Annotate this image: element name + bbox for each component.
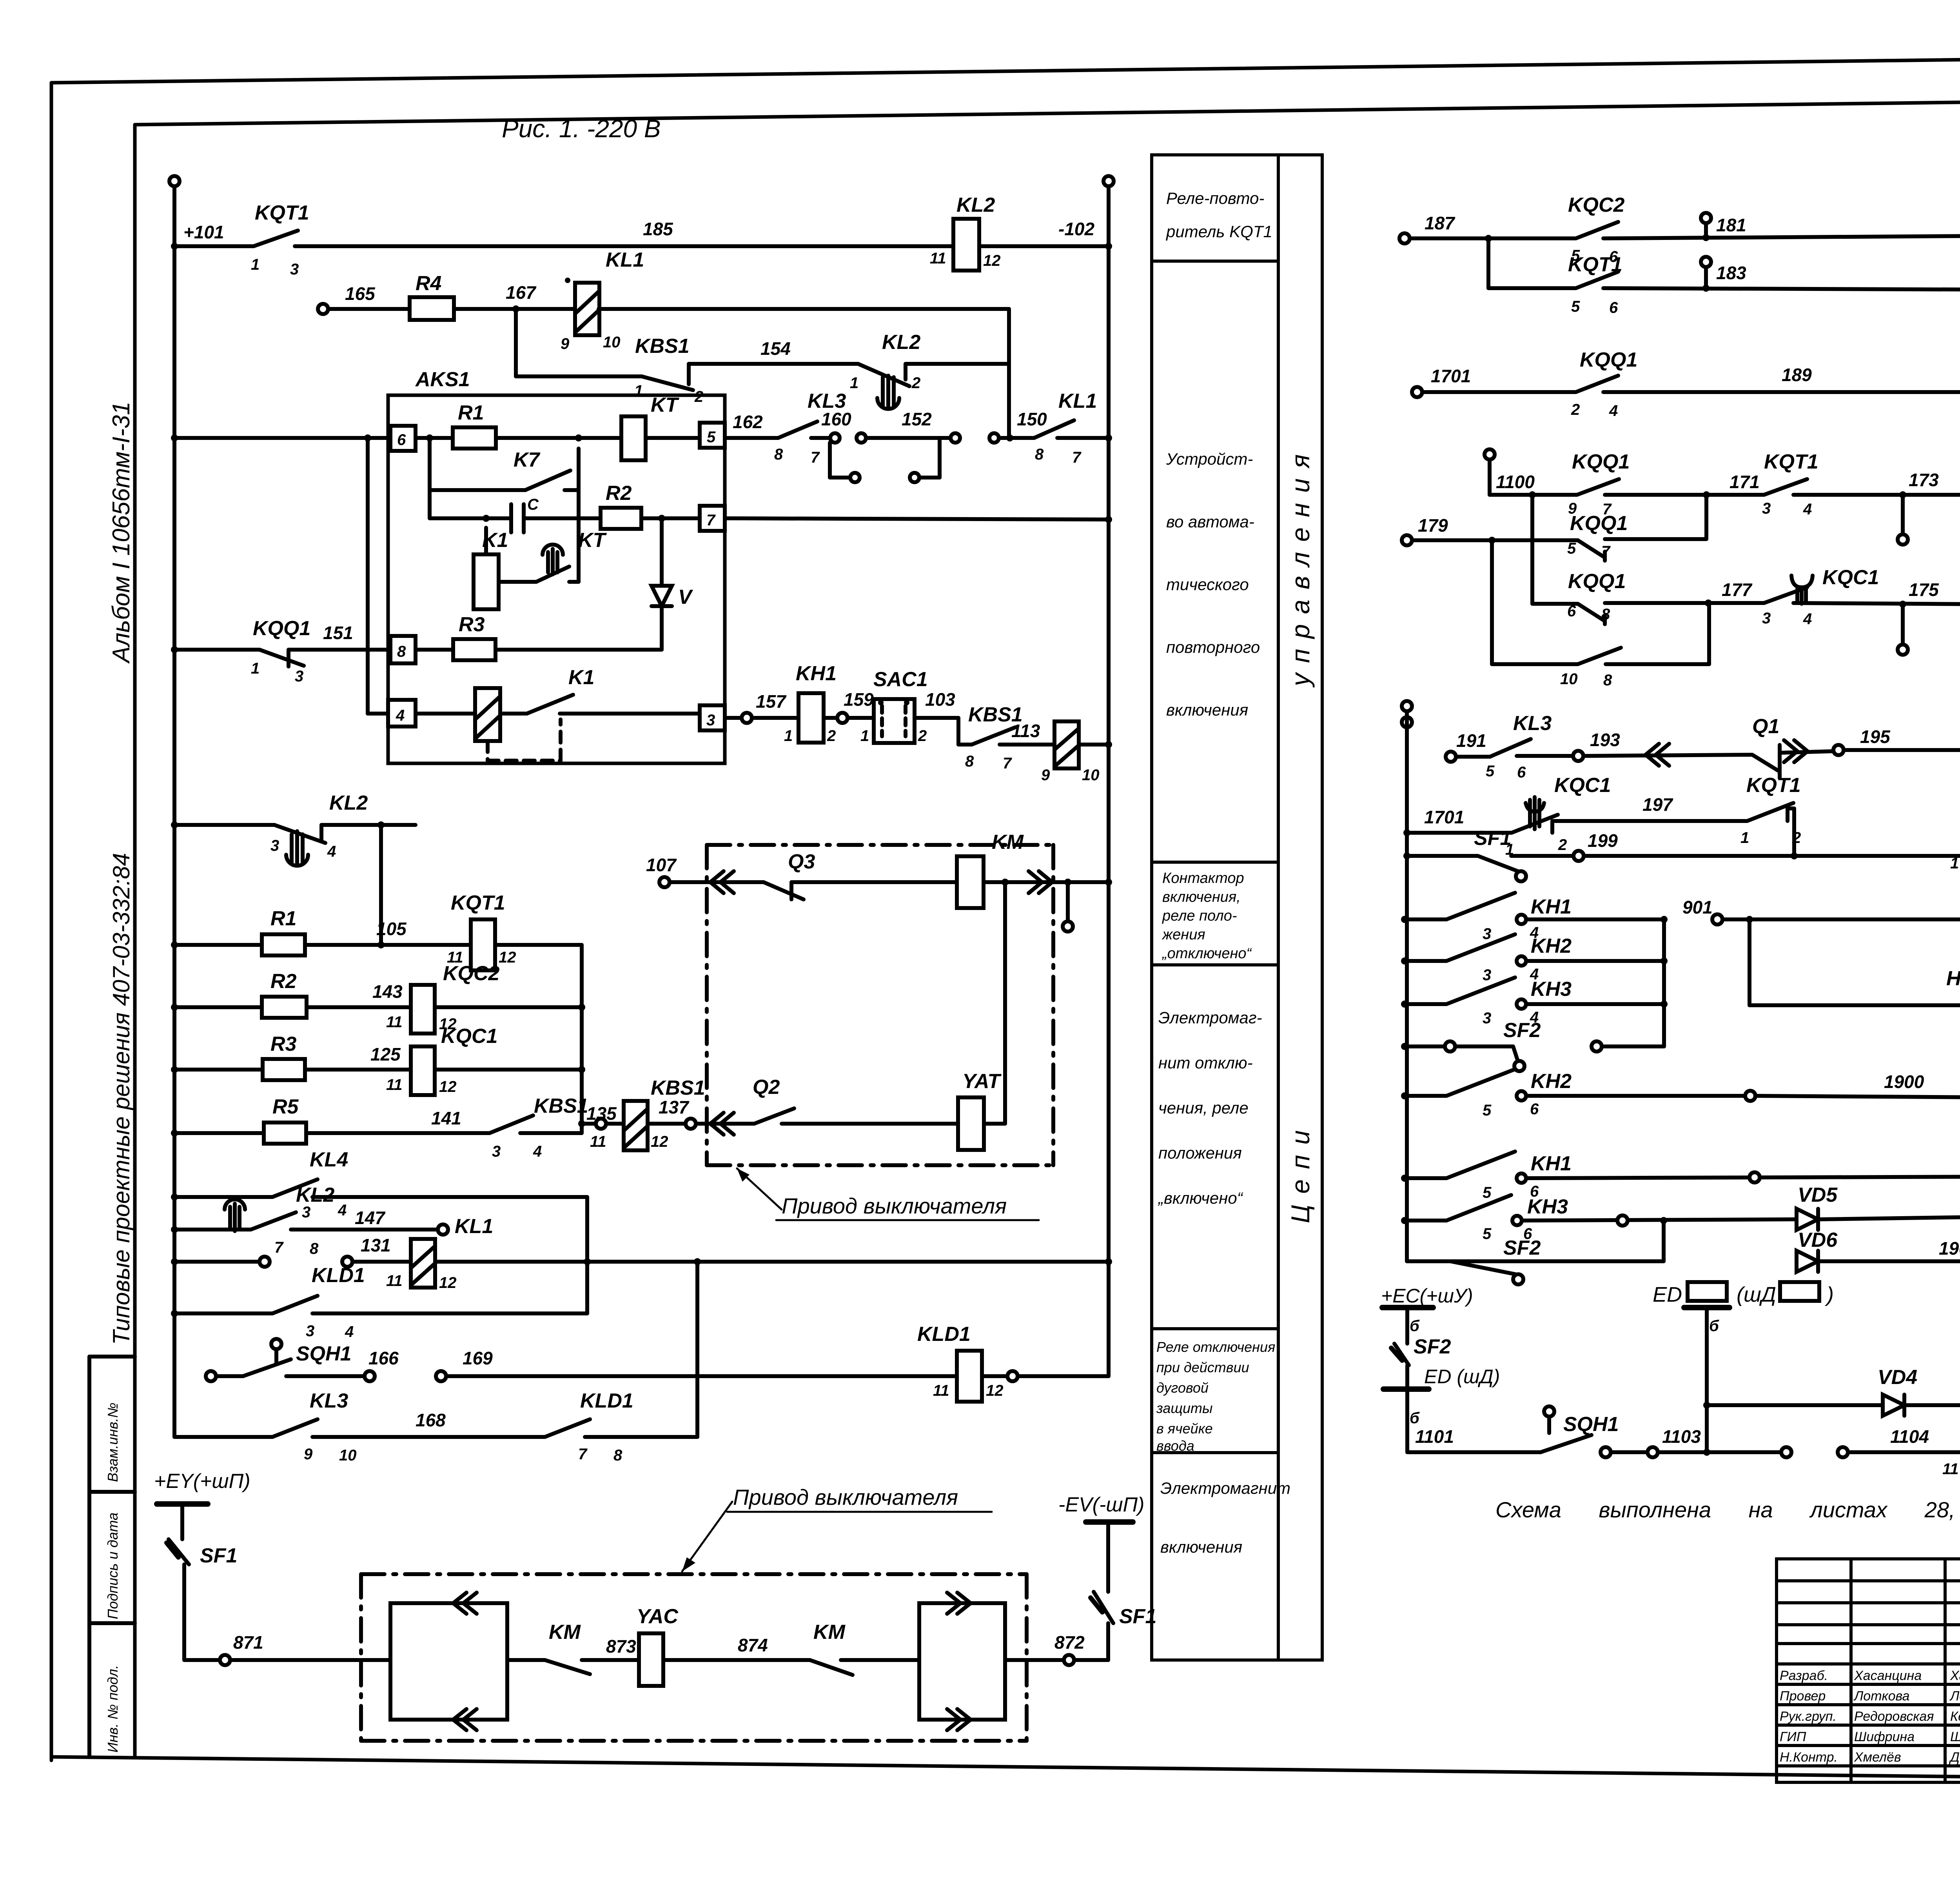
svg-text:191: 191 [1456, 730, 1486, 751]
left bus top terminal [169, 176, 180, 186]
svg-text:901: 901 [1682, 897, 1713, 917]
svg-text:Редоровская: Редоровская [1854, 1709, 1934, 1724]
wire row R4 1100 171 173 176 [1485, 449, 1495, 460]
wire R1 to KT [496, 436, 621, 440]
svg-text:R5: R5 [272, 1095, 299, 1118]
contact KQC1 row R6 [1764, 587, 1807, 603]
vertical bus rows I-L [580, 945, 584, 1133]
svg-text:KH1: KH1 [1531, 895, 1572, 918]
svg-text:10: 10 [339, 1447, 357, 1464]
svg-text:+101: +101 [183, 222, 224, 242]
svg-text:Альбом I 10656тм-I-31: Альбом I 10656тм-I-31 [108, 401, 135, 664]
svg-text:KLD1: KLD1 [917, 1323, 971, 1346]
resistor R3 row K [263, 1059, 305, 1080]
contact KL4 [272, 1179, 318, 1197]
svg-text:б: б [1709, 1317, 1719, 1335]
svg-text:131: 131 [361, 1235, 391, 1255]
vertical to terminal 4 [366, 438, 370, 714]
svg-text:KH2: KH2 [1531, 1070, 1572, 1093]
svg-text:5: 5 [1483, 1225, 1492, 1242]
wire row Q1 191 193 195 1707 [1446, 752, 1456, 762]
wire row K R3 125 KQC1 [174, 1068, 263, 1072]
svg-text:„включено“: „включено“ [1158, 1189, 1243, 1207]
svg-text:12: 12 [439, 1078, 457, 1095]
wire 5 to KL3 [725, 436, 778, 440]
wire row R2 183 [1486, 238, 1490, 288]
left signature table verticals [1849, 1559, 1853, 1782]
svg-text:7: 7 [578, 1446, 588, 1463]
svg-text:2: 2 [911, 374, 920, 392]
svg-text:SF2: SF2 [1503, 1019, 1541, 1042]
svg-text:181: 181 [1716, 215, 1746, 235]
svg-text:162: 162 [733, 412, 763, 432]
svg-text:8: 8 [1601, 606, 1610, 623]
terminal box 6 [390, 426, 416, 451]
svg-text:151: 151 [323, 623, 353, 643]
wire row RK VD4 1105 [1707, 1403, 1883, 1407]
svg-text:KM: KM [813, 1621, 846, 1644]
svg-text:R3: R3 [459, 613, 485, 636]
wire row C KBS1 154 KL2 [516, 374, 642, 378]
svg-text:чения, реле: чения, реле [1158, 1099, 1249, 1117]
wire row Q SQH1 166 169 KLD1 [206, 1371, 216, 1381]
wire row RG KH2 56 1900 VD2 R11 1917 [1405, 1094, 1446, 1098]
wire row RC KH1 901 VD1 1685 [1405, 917, 1446, 921]
electromagnet coil YAC [639, 1633, 663, 1686]
svg-text:10: 10 [1560, 670, 1578, 688]
terminal 165 [318, 304, 328, 314]
svg-text:2: 2 [1571, 401, 1580, 418]
contactor coil KM [957, 856, 984, 908]
right half lower bus [1402, 701, 1412, 711]
svg-text:173: 173 [1909, 470, 1939, 490]
contact Q3 [764, 882, 804, 899]
svg-text:KBS1: KBS1 [651, 1077, 705, 1099]
svg-text:K1: K1 [568, 666, 594, 689]
svg-text:Н.Контр.: Н.Контр. [1780, 1750, 1838, 1765]
wire row KM 107 [659, 877, 670, 887]
svg-text:KQC1: KQC1 [1554, 774, 1611, 797]
svg-text:1100: 1100 [1496, 472, 1535, 492]
svg-text:2: 2 [1558, 836, 1567, 854]
svg-text:1101: 1101 [1415, 1426, 1454, 1447]
wire row H KL2 [174, 823, 274, 827]
svg-text:12: 12 [439, 1274, 457, 1291]
wire row R KL3 168 KLD1 [174, 1435, 272, 1439]
svg-text:Контактор: Контактор [1162, 870, 1244, 886]
AKS1 unit box [388, 395, 725, 763]
terminal box 8 [390, 636, 416, 663]
contact KL1 row D [1034, 420, 1074, 438]
svg-text:2: 2 [918, 727, 927, 745]
svg-text:185: 185 [643, 219, 673, 239]
svg-text:Q2: Q2 [753, 1076, 780, 1099]
breaker SF1 right [1094, 1592, 1113, 1623]
contact KL3 row D [778, 421, 817, 438]
svg-text:166: 166 [368, 1348, 399, 1368]
supply terminal -EV [1086, 1519, 1133, 1525]
resistor R1 row I [262, 934, 305, 955]
relay coil KL1 hatched [575, 283, 599, 335]
svg-text:6: 6 [1530, 1101, 1539, 1118]
svg-text:KL1: KL1 [606, 249, 644, 271]
svg-text:12: 12 [983, 252, 1001, 269]
contact KT delayed interior [499, 580, 536, 584]
svg-text:7: 7 [1072, 449, 1082, 466]
svg-text:3: 3 [492, 1143, 501, 1160]
inner frame top line [135, 95, 1960, 125]
svg-text:Рис. 1. -220 В: Рис. 1. -220 В [502, 114, 661, 143]
svg-text:V: V [678, 586, 693, 608]
wire row R3 1701 189 KL3 [1412, 387, 1422, 397]
svg-text:11: 11 [930, 250, 946, 267]
svg-text:195: 195 [1860, 727, 1891, 747]
svg-text:11: 11 [590, 1133, 606, 1150]
svg-text:3: 3 [270, 837, 279, 854]
svg-text:KQC1: KQC1 [441, 1025, 497, 1048]
svg-text:Взам.инв.№: Взам.инв.№ [105, 1402, 121, 1482]
svg-text:KL4: KL4 [310, 1148, 348, 1171]
title block outer [1777, 1559, 1960, 1782]
svg-text:4: 4 [396, 707, 405, 724]
svg-text:Кец-: Кец- [1950, 1709, 1960, 1724]
resistor R5 row L [264, 1123, 306, 1144]
svg-text:ED: ED [1653, 1283, 1682, 1306]
svg-text:157: 157 [756, 691, 787, 712]
accessory contact KH1 [799, 693, 824, 743]
svg-text:Рук.груп.: Рук.груп. [1780, 1709, 1837, 1724]
svg-text:KLD1: KLD1 [580, 1390, 633, 1412]
svg-text:Привод выключателя: Привод выключателя [733, 1485, 958, 1509]
svg-text:при действии: при действии [1156, 1359, 1249, 1375]
right bus of left half [1107, 186, 1111, 1376]
contact KBS1 row G2 [958, 743, 972, 747]
svg-text:HLW1: HLW1 [1946, 967, 1960, 990]
resistor R2 interior [601, 508, 641, 529]
wire row N KL2 147 [174, 1228, 251, 1231]
vertical row C to row D [1007, 364, 1011, 438]
svg-text:160: 160 [821, 409, 851, 429]
contact KM lower 2 [810, 1660, 853, 1675]
svg-text:Лотх: Лотх [1949, 1689, 1960, 1704]
svg-text:4: 4 [338, 1202, 347, 1219]
connector pair 160 [830, 433, 840, 443]
svg-text:повторного: повторного [1166, 638, 1260, 656]
wire row R1 187 181 1702 [1399, 233, 1410, 243]
svg-text:KM: KM [992, 831, 1024, 854]
svg-text:б: б [1410, 1317, 1420, 1335]
svg-text:5: 5 [1567, 540, 1576, 557]
svg-text:KL2: KL2 [882, 331, 920, 354]
svg-text:YAT: YAT [962, 1070, 1002, 1093]
svg-text:SF2: SF2 [1414, 1335, 1451, 1358]
svg-text:1900: 1900 [1884, 1072, 1924, 1092]
svg-text:Хмелёв: Хмелёв [1854, 1750, 1901, 1765]
wire row G outside 157 159 103 [725, 716, 742, 720]
svg-text:„отключено“: „отключено“ [1161, 945, 1252, 962]
svg-text:-102: -102 [1058, 219, 1094, 239]
separation chevron Q1 right [1784, 740, 1797, 762]
wire drop row B right to row C [1007, 309, 1011, 376]
wire row RJ SF2 VD6 1907 [1407, 1259, 1450, 1263]
wire row F KQQ1 151 [174, 648, 260, 652]
svg-text:3: 3 [1483, 925, 1491, 943]
svg-text:147: 147 [355, 1208, 386, 1228]
contact KQT1 row R2 [1576, 272, 1618, 288]
svg-text:ED (шД): ED (шД) [1424, 1366, 1500, 1388]
svg-text:Провер: Провер [1780, 1689, 1826, 1704]
svg-text:KL1: KL1 [1058, 390, 1097, 412]
svg-text:105: 105 [376, 919, 407, 939]
svg-text:KL2: KL2 [329, 792, 368, 814]
separation chevron Q1 left [1646, 744, 1659, 766]
svg-text:179: 179 [1418, 515, 1448, 536]
contact KL2 delayed row H [274, 825, 325, 843]
svg-text:SF1: SF1 [1119, 1605, 1156, 1628]
svg-text:Дмил: Дмил [1949, 1750, 1960, 1765]
svg-text:): ) [1824, 1283, 1834, 1306]
svg-text:1: 1 [1740, 829, 1749, 846]
lamp HLW1 row [1748, 919, 1751, 1005]
svg-text:6: 6 [1609, 299, 1618, 316]
svg-text:SF2: SF2 [1503, 1237, 1541, 1259]
svg-text:1: 1 [860, 727, 869, 745]
svg-text:9: 9 [1041, 766, 1050, 784]
relay coil KLD1 row Q [957, 1351, 982, 1402]
svg-text:152: 152 [902, 409, 932, 429]
svg-text:KH1: KH1 [796, 662, 837, 685]
svg-text:1: 1 [1950, 855, 1959, 872]
svg-text:125: 125 [370, 1044, 401, 1064]
svg-text:KT: KT [578, 529, 607, 552]
svg-text:5: 5 [1571, 298, 1580, 315]
AKS1 interior vertical left [428, 438, 432, 518]
svg-text:(шД: (шД [1737, 1283, 1776, 1306]
svg-text:SF1: SF1 [200, 1544, 237, 1567]
svg-text:Разраб.: Разраб. [1780, 1668, 1828, 1683]
svg-text:871: 871 [233, 1632, 263, 1653]
middle legend inner vertical [1277, 155, 1280, 1660]
middle legend divider 3 [1152, 963, 1278, 966]
wire row A 185 [174, 244, 254, 248]
svg-text:10: 10 [603, 334, 621, 351]
svg-text:169: 169 [463, 1348, 493, 1368]
contact KQQ1 row F [260, 650, 304, 666]
svg-text:3: 3 [1762, 610, 1771, 627]
svg-text:Электромагнит: Электромагнит [1160, 1479, 1290, 1497]
svg-text:4: 4 [1609, 402, 1618, 420]
contact KBS1 row C [642, 376, 693, 390]
wire row RF SF2 [1405, 1044, 1445, 1048]
wire row D left [174, 436, 390, 440]
svg-text:KH3: KH3 [1531, 978, 1572, 1001]
separation chevron KM row [710, 871, 724, 893]
svg-text:1103: 1103 [1662, 1426, 1701, 1447]
contact K1 row G [500, 712, 527, 716]
sheet outer border bottom [51, 1757, 1960, 1783]
svg-text:3: 3 [1483, 966, 1491, 984]
svg-text:Реле отключения: Реле отключения [1156, 1339, 1275, 1355]
svg-text:+EC(+шУ): +EC(+шУ) [1381, 1285, 1473, 1307]
svg-text:8: 8 [1035, 446, 1044, 463]
relay coil KT [621, 416, 646, 460]
wire row I R1 105 KQT1 [174, 943, 262, 947]
svg-text:2: 2 [1792, 829, 1801, 846]
svg-text:Лоткова: Лоткова [1853, 1689, 1909, 1704]
svg-text:нит отклю-: нит отклю- [1158, 1053, 1253, 1072]
breaker SF1 left [169, 1539, 189, 1564]
svg-text:168: 168 [416, 1410, 446, 1430]
contact KH1 row RC [1446, 893, 1515, 919]
relay coil KQC1 [411, 1046, 435, 1095]
svg-text:KL3: KL3 [310, 1390, 348, 1412]
breaker SF2 row RF [1513, 1046, 1518, 1061]
relay coil K1 interior [474, 554, 499, 609]
svg-text:SAC1: SAC1 [873, 668, 928, 691]
svg-text:KM: KM [549, 1621, 581, 1644]
svg-text:177: 177 [1722, 579, 1753, 600]
svg-text:KQT1: KQT1 [255, 202, 309, 224]
svg-text:193: 193 [1590, 730, 1620, 750]
contact KQT1 row R4 [1764, 479, 1807, 495]
svg-text:9: 9 [304, 1446, 313, 1463]
contact KLD1 row P [272, 1296, 318, 1313]
svg-text:12: 12 [499, 949, 516, 966]
relay coil KL2 row A [953, 219, 979, 271]
svg-text:12: 12 [651, 1133, 668, 1150]
svg-text:Электромаг-: Электромаг- [1158, 1008, 1262, 1027]
svg-text:167: 167 [506, 282, 537, 303]
svg-text:ввода: ввода [1156, 1438, 1194, 1454]
sheet outer border top [51, 52, 1960, 83]
wire 6 to R1 [416, 436, 453, 440]
contact KQQ1 row R5 [1578, 540, 1605, 558]
svg-text:5: 5 [1483, 1184, 1492, 1201]
breaker SF2 row RJ [1450, 1259, 1515, 1263]
wire row RH KH1 56 [1405, 1176, 1446, 1180]
relay coil K1 hatched [416, 712, 475, 716]
svg-text:KQQ1: KQQ1 [1570, 512, 1628, 535]
svg-text:4: 4 [1803, 501, 1812, 518]
wire row B 165-167 [328, 307, 410, 311]
svg-text:YAC: YAC [637, 1605, 679, 1628]
svg-text:3: 3 [1762, 500, 1771, 517]
svg-text:3: 3 [295, 668, 303, 685]
svg-text:Схема выполнена на листах: Схема выполнена на листах 28, 29, 30, 31 [1495, 1497, 1960, 1522]
svg-text:реле поло-: реле поло- [1162, 908, 1237, 924]
contact KL3 row Q1 [1490, 739, 1531, 757]
svg-text:1104: 1104 [1890, 1426, 1929, 1447]
right bus top terminal [1103, 176, 1114, 186]
breaker SF1 row RB [1478, 856, 1518, 871]
separation chevron KM row right [1029, 871, 1042, 893]
svg-text:KQQ1: KQQ1 [1568, 570, 1626, 593]
terminal 181 [1701, 213, 1711, 223]
svg-text:8: 8 [613, 1447, 622, 1464]
resistor R4 [410, 297, 454, 320]
svg-text:ГИП: ГИП [1780, 1729, 1806, 1744]
svg-text:SF1: SF1 [1474, 827, 1511, 850]
wire row R7 bottom bypass [1490, 540, 1494, 664]
contact KL2 delayed row C [858, 364, 909, 386]
stamp column line [87, 1357, 91, 1757]
svg-text:8: 8 [310, 1240, 319, 1257]
svg-text:1: 1 [251, 660, 260, 677]
svg-text:7: 7 [706, 512, 716, 529]
svg-text:VD5: VD5 [1798, 1184, 1838, 1206]
svg-text:KL3: KL3 [1513, 712, 1552, 735]
svg-text:KQT1: KQT1 [1764, 450, 1818, 473]
svg-text:K7: K7 [514, 449, 541, 471]
drive unit box 2 dash-dot [361, 1574, 1027, 1741]
wire row RA 1701 197 [1407, 831, 1512, 835]
svg-text:KL1: KL1 [455, 1215, 493, 1238]
svg-text:Привод выключателя: Привод выключателя [782, 1193, 1007, 1218]
svg-text:во автома-: во автома- [1166, 512, 1254, 531]
contact KQT1 row RA [1747, 803, 1793, 821]
terminal box 7 [700, 506, 725, 531]
wire row O 131 KL1 [174, 1260, 260, 1264]
svg-text:3: 3 [306, 1322, 314, 1340]
contact KQC2 [1576, 222, 1618, 238]
svg-text:873: 873 [606, 1636, 636, 1657]
middle legend column outer box [1152, 155, 1322, 1660]
separation chevron left [696, 1122, 754, 1126]
contact KQC1 delayed row RA [1512, 815, 1558, 833]
wire row RI KH3 56 VD5 R12 [1405, 1219, 1446, 1222]
svg-text:R2: R2 [270, 970, 297, 993]
svg-text:11: 11 [386, 1014, 403, 1031]
svg-text:KH2: KH2 [1531, 935, 1572, 957]
relay coil KQT1 [471, 919, 495, 970]
diode VD6 [1797, 1251, 1818, 1272]
left signature table rows [1777, 1579, 1960, 1582]
svg-text:VD4: VD4 [1878, 1366, 1917, 1389]
terminal box 3 [700, 705, 725, 730]
sheet outer border left [50, 83, 53, 1760]
wire drop 167 to row C [514, 309, 518, 376]
node 103 [915, 716, 958, 720]
svg-text:KBS1: KBS1 [635, 335, 690, 358]
svg-text:SQH1: SQH1 [296, 1342, 352, 1365]
resistor R2 row J [262, 997, 307, 1018]
svg-text:Типовые проектные решения 4: Типовые проектные решения 407-03-332:84 [108, 853, 134, 1345]
svg-text:C: C [527, 496, 539, 513]
resistor R3 interior [416, 648, 453, 652]
diode VD5 [1797, 1209, 1818, 1230]
relay coil KBS1 hatched [1054, 721, 1079, 768]
svg-text:KQC2: KQC2 [1568, 194, 1625, 216]
diode V interior [660, 518, 664, 650]
svg-text:SQH1: SQH1 [1563, 1413, 1619, 1436]
svg-text:Хасани: Хасани [1950, 1668, 1960, 1683]
wire row RL 1101 [1405, 1449, 1409, 1452]
wire row RB SF1 199 1702 [1407, 854, 1478, 858]
bypass loop below row D [828, 443, 832, 478]
coupling box 2 [919, 1603, 1005, 1720]
svg-text:7: 7 [1601, 543, 1611, 560]
svg-text:6: 6 [397, 431, 406, 449]
svg-text:-EV(-шП): -EV(-шП) [1058, 1493, 1144, 1516]
limit switch SQH1 row RL [1544, 1406, 1554, 1417]
svg-text:KH1: KH1 [1531, 1152, 1572, 1175]
wire row S to drive [230, 1658, 390, 1662]
stamp box dividers [89, 1355, 135, 1359]
svg-text:175: 175 [1909, 579, 1939, 600]
svg-text:3: 3 [706, 712, 715, 729]
svg-text:171: 171 [1730, 472, 1760, 492]
svg-text:включения,: включения, [1162, 889, 1241, 905]
